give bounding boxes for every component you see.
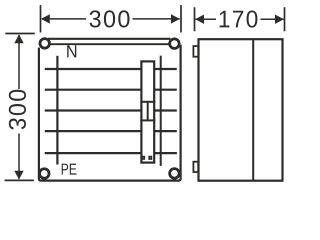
dim extension tick left-bottom bbox=[5, 179, 34, 181]
dimension line 300 top bbox=[42, 18, 86, 20]
rail foot right bbox=[149, 157, 151, 159]
side view cover split line bbox=[252, 39, 254, 181]
arrow right bbox=[171, 14, 180, 23]
arrow left bbox=[41, 14, 50, 23]
dim extension line top-right bbox=[180, 5, 182, 32]
dim extension line top-left bbox=[40, 5, 42, 32]
arrow 300-left down bbox=[14, 171, 23, 180]
dimension text 170 bbox=[220, 11, 258, 28]
dimension text 300 top bbox=[89, 10, 129, 27]
corner screw bottom-right bbox=[170, 169, 180, 179]
terminal center line bbox=[147, 102, 149, 121]
dimension line 170 bbox=[195, 18, 216, 20]
side view clip top bbox=[193, 46, 198, 57]
dimension text 300 left (rotated) bbox=[9, 90, 26, 130]
busbar 4 bbox=[45, 130, 177, 132]
corner screw bottom-left bbox=[40, 169, 50, 179]
arrow 170 left bbox=[195, 15, 204, 24]
busbar 3 bbox=[45, 109, 177, 111]
rail foot left bbox=[142, 157, 144, 159]
lid edge line bbox=[50, 43, 169, 45]
corner screw top-left bbox=[40, 39, 50, 49]
terminal divider bottom bbox=[140, 119, 155, 121]
right vertical wire bbox=[160, 56, 162, 166]
enclosure front view outline left/bottom/right bbox=[39, 45, 181, 181]
terminal divider top bbox=[140, 101, 155, 103]
side view clip bottom bbox=[193, 162, 198, 172]
busbar 1 bbox=[45, 68, 177, 70]
DIN rail body bbox=[141, 61, 154, 162]
enclosure front view outline top edge bbox=[48, 38, 170, 40]
left vertical wire bbox=[56, 56, 58, 165]
arrow 300-left up bbox=[14, 34, 23, 43]
dim extension 170 left bbox=[194, 7, 196, 31]
dim extension tick left-top bbox=[5, 33, 35, 35]
arrow 170 right bbox=[275, 15, 284, 24]
dim extension 170 right bbox=[284, 7, 286, 31]
corner screw top-right bbox=[170, 39, 180, 49]
enclosure side view outline bbox=[199, 39, 283, 181]
busbar 2 bbox=[45, 89, 177, 91]
label N bbox=[67, 45, 76, 57]
busbar 5 bbox=[45, 152, 177, 154]
dimension line 300 left bbox=[18, 35, 20, 89]
label PE bbox=[62, 164, 77, 175]
